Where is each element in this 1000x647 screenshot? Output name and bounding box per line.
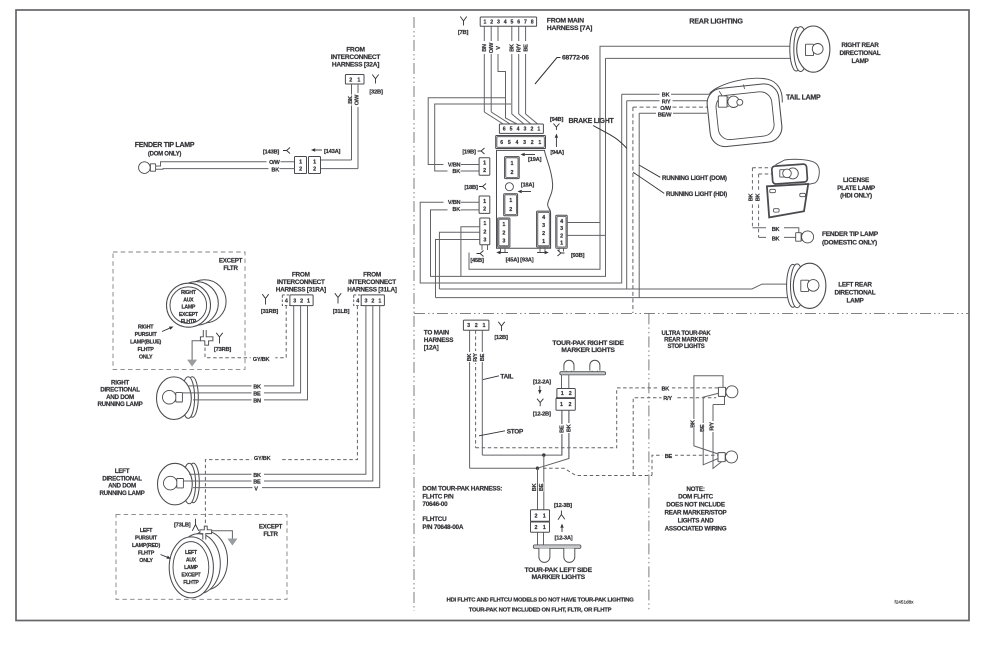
svg-text:(DOM ONLY): (DOM ONLY) [148,152,182,158]
svg-text:ONLY: ONLY [139,558,153,564]
svg-text:3: 3 [502,239,505,245]
svg-text:2: 2 [542,231,545,237]
svg-text:BE: BE [560,425,566,433]
svg-text:V: V [496,46,502,50]
svg-text:LICENSE: LICENSE [843,177,870,184]
svg-text:[12-2A]: [12-2A] [533,379,551,385]
svg-text:TOUR-PAK RIGHT SIDE: TOUR-PAK RIGHT SIDE [552,340,624,347]
svg-text:LEFT REAR: LEFT REAR [838,282,872,289]
svg-text:4: 4 [356,299,359,305]
svg-text:3: 3 [497,20,500,26]
svg-text:GY/BK: GY/BK [254,456,271,462]
svg-text:LEFT: LEFT [185,550,198,556]
svg-text:PLATE LAMP: PLATE LAMP [837,185,876,192]
svg-text:[94A]: [94A] [550,150,564,156]
svg-text:RIGHT: RIGHT [181,290,197,296]
svg-text:2: 2 [371,298,374,304]
svg-text:DOM FLHTC: DOM FLHTC [678,494,714,501]
svg-text:4: 4 [515,140,518,146]
svg-text:INTERCONNECT: INTERCONNECT [331,54,381,61]
svg-text:1: 1 [502,222,505,228]
svg-text:ULTRA TOUR-PAK: ULTRA TOUR-PAK [662,331,712,337]
svg-text:R/Y: R/Y [517,43,523,52]
svg-text:TOUR-PAK LEFT SIDE: TOUR-PAK LEFT SIDE [525,567,593,574]
svg-text:1: 1 [543,514,546,520]
svg-text:[94B]: [94B] [550,117,564,123]
svg-text:BE: BE [700,424,706,432]
svg-text:BK: BK [755,194,761,202]
svg-text:FENDER TIP LAMP: FENDER TIP LAMP [822,231,879,238]
svg-text:2: 2 [534,525,537,531]
svg-text:STOP LIGHTS: STOP LIGHTS [667,344,704,350]
svg-text:[12-3A]: [12-3A] [555,536,573,542]
svg-text:P/N 70648-00A: P/N 70648-00A [422,524,463,531]
svg-text:FLHTC P/N: FLHTC P/N [422,493,454,500]
svg-text:RUNNING LAMP: RUNNING LAMP [97,401,142,408]
svg-text:EXCEPT: EXCEPT [181,573,201,579]
svg-text:MARKER LIGHTS: MARKER LIGHTS [561,347,615,354]
svg-text:LAMP(RED): LAMP(RED) [132,543,160,549]
svg-text:[93B]: [93B] [571,253,585,259]
svg-text:FROM: FROM [363,271,381,278]
svg-text:2: 2 [560,233,563,239]
svg-text:1: 1 [560,402,563,408]
svg-text:2: 2 [569,402,572,408]
svg-text:TO MAIN: TO MAIN [424,329,450,336]
svg-text:R/Y: R/Y [473,353,479,362]
svg-text:HDI FLHTC AND FLHTCU MODELS DO: HDI FLHTC AND FLHTCU MODELS DO NOT HAVE … [446,597,634,603]
svg-text:6: 6 [517,20,520,26]
svg-text:1: 1 [542,239,545,245]
svg-text:HARNESS [31RA]: HARNESS [31RA] [276,286,326,293]
svg-text:R/Y: R/Y [710,422,716,431]
svg-text:[45B]: [45B] [470,258,484,264]
svg-text:3: 3 [293,298,296,304]
svg-text:BK: BK [510,44,516,52]
svg-text:1: 1 [482,323,485,329]
svg-text:INTERCONNECT: INTERCONNECT [348,279,396,286]
svg-text:DOES NOT INCLUDE: DOES NOT INCLUDE [666,502,725,509]
svg-text:PURSUIT: PURSUIT [135,332,158,338]
svg-text:1: 1 [483,20,486,26]
svg-text:BE: BE [524,44,530,52]
svg-text:AND DOM: AND DOM [108,483,136,490]
svg-text:REAR MARKER/: REAR MARKER/ [664,337,708,343]
svg-text:3: 3 [524,127,527,133]
svg-text:FLTR: FLTR [223,265,238,272]
svg-text:INTERCONNECT: INTERCONNECT [277,279,325,286]
svg-text:V: V [254,486,258,492]
svg-text:DIRECTIONAL: DIRECTIONAL [840,50,881,57]
svg-text:3: 3 [467,323,470,329]
svg-text:BN: BN [253,398,261,404]
svg-text:2: 2 [511,170,514,176]
svg-text:BE: BE [480,353,486,361]
svg-text:4: 4 [285,299,288,305]
svg-text:8: 8 [531,20,534,26]
svg-text:FLHTCU: FLHTCU [422,516,447,523]
svg-text:2: 2 [509,207,512,213]
svg-text:BK: BK [691,420,697,428]
svg-text:1: 1 [299,159,302,165]
svg-text:R/Y: R/Y [663,396,672,402]
svg-text:2: 2 [300,298,303,304]
svg-text:4: 4 [542,215,545,221]
svg-text:BK: BK [271,167,279,173]
svg-text:1: 1 [538,140,541,146]
svg-text:(HDI ONLY): (HDI ONLY) [840,193,872,200]
svg-text:EXCEPT: EXCEPT [179,312,199,318]
svg-text:1: 1 [509,198,512,204]
svg-text:STOP: STOP [507,428,524,435]
svg-text:6: 6 [503,127,506,133]
svg-text:ONLY: ONLY [139,355,153,361]
svg-text:1: 1 [543,525,546,531]
svg-text:TAIL: TAIL [500,373,513,380]
svg-text:TOUR-PAK NOT INCLUDED ON FLHT,: TOUR-PAK NOT INCLUDED ON FLHT, FLTR, OR … [469,607,612,613]
svg-text:2: 2 [534,514,537,520]
svg-text:PURSUIT: PURSUIT [135,535,158,541]
svg-text:1: 1 [537,127,540,133]
svg-text:GY/BK: GY/BK [253,357,270,363]
svg-text:NOTE:: NOTE: [686,486,704,493]
svg-text:AUX: AUX [186,557,197,563]
svg-text:(DOMESTIC ONLY): (DOMESTIC ONLY) [822,239,877,246]
svg-text:DOM TOUR-PAK HARNESS:: DOM TOUR-PAK HARNESS: [422,485,502,492]
svg-text:RUNNING LAMP: RUNNING LAMP [99,490,144,497]
svg-text:LAMP: LAMP [182,305,196,311]
svg-text:[73LB]: [73LB] [174,522,191,528]
svg-text:1: 1 [511,161,514,167]
svg-text:[73RB]: [73RB] [214,347,232,353]
svg-text:FROM: FROM [346,47,365,54]
svg-text:BK: BK [772,236,780,242]
svg-text:HARNESS [32A]: HARNESS [32A] [332,62,379,69]
svg-text:[12A]: [12A] [424,344,439,351]
svg-text:DIRECTIONAL: DIRECTIONAL [102,475,142,482]
svg-text:2: 2 [349,77,352,83]
svg-text:4: 4 [560,219,563,225]
svg-text:LAMP: LAMP [184,565,198,571]
svg-text:BK: BK [662,386,670,392]
svg-text:[143A]: [143A] [324,149,341,155]
svg-text:5: 5 [508,140,511,146]
svg-text:2: 2 [313,167,316,173]
svg-text:REAR MARKER/STOP: REAR MARKER/STOP [664,510,726,517]
svg-text:68772-06: 68772-06 [562,55,589,62]
svg-text:4: 4 [504,20,507,26]
svg-text:[45A] [93A]: [45A] [93A] [506,258,534,264]
svg-text:5: 5 [510,127,513,133]
svg-text:5: 5 [510,20,513,26]
svg-text:2: 2 [530,127,533,133]
svg-text:BK: BK [452,207,460,213]
svg-text:AUX: AUX [183,297,194,303]
svg-text:[18A]: [18A] [521,183,535,189]
svg-text:BN: BN [482,44,488,52]
svg-text:FLHTP: FLHTP [138,550,155,556]
svg-text:[31RB]: [31RB] [261,309,279,315]
svg-text:BRAKE LIGHT: BRAKE LIGHT [568,118,614,125]
svg-text:f2451d8x: f2451d8x [895,600,915,605]
svg-text:DIRECTIONAL: DIRECTIONAL [100,387,140,394]
svg-text:[12-3B]: [12-3B] [554,503,572,509]
svg-text:LEFT: LEFT [140,528,153,534]
svg-text:[18B]: [18B] [464,185,478,191]
svg-text:[32B]: [32B] [369,90,383,96]
svg-text:EXCEPT: EXCEPT [219,258,243,265]
svg-text:BK: BK [772,227,780,233]
svg-text:[19B]: [19B] [462,150,476,156]
svg-text:[143B]: [143B] [263,150,280,156]
svg-text:3: 3 [364,298,367,304]
svg-text:2: 2 [490,20,493,26]
svg-text:TAIL LAMP: TAIL LAMP [786,95,821,102]
svg-text:BE/W: BE/W [658,112,673,118]
svg-text:EXCEPT: EXCEPT [259,524,283,531]
svg-text:BK: BK [532,483,538,491]
svg-text:O/W: O/W [489,42,495,53]
svg-text:FLTR: FLTR [263,531,278,538]
svg-text:O/W: O/W [355,94,361,105]
svg-text:1: 1 [560,240,563,246]
svg-text:LAMP: LAMP [851,58,869,65]
svg-text:RIGHT: RIGHT [138,325,154,331]
svg-text:1: 1 [483,199,486,205]
svg-text:[12-2B]: [12-2B] [533,412,551,418]
svg-text:LAMP: LAMP [846,298,864,305]
svg-text:2: 2 [531,140,534,146]
svg-text:BK: BK [749,194,755,202]
svg-text:2: 2 [483,206,486,212]
svg-text:RIGHT: RIGHT [111,379,129,386]
svg-text:HARNESS [7A]: HARNESS [7A] [547,25,592,32]
svg-text:BE: BE [665,454,673,460]
svg-text:V/BN: V/BN [448,162,461,168]
svg-text:AND DOM: AND DOM [106,394,134,401]
svg-text:FLHTP: FLHTP [181,319,197,325]
svg-text:1: 1 [313,159,316,165]
svg-text:DIRECTIONAL: DIRECTIONAL [835,290,876,297]
svg-text:[12B]: [12B] [494,335,508,341]
svg-text:3: 3 [483,237,486,243]
svg-text:[7B]: [7B] [458,30,469,36]
svg-text:1: 1 [307,298,310,304]
svg-text:2: 2 [299,167,302,173]
svg-text:6: 6 [500,140,503,146]
svg-text:HARNESS: HARNESS [424,337,454,344]
svg-text:ASSOCIATED WIRING: ASSOCIATED WIRING [665,525,727,532]
svg-text:LIGHTS AND: LIGHTS AND [678,517,714,524]
svg-text:FLHTP: FLHTP [138,347,155,353]
svg-text:RUNNING LIGHT (HDI): RUNNING LIGHT (HDI) [666,191,727,198]
svg-text:2: 2 [483,229,486,235]
svg-text:1: 1 [357,77,360,83]
svg-text:BK: BK [567,424,573,432]
svg-text:2: 2 [483,168,486,174]
svg-text:BK: BK [348,96,354,104]
svg-text:7: 7 [524,20,527,26]
svg-text:FROM: FROM [292,271,310,278]
svg-text:V/BN: V/BN [448,200,461,206]
svg-text:RIGHT REAR: RIGHT REAR [841,42,879,49]
svg-text:1: 1 [483,221,486,227]
svg-text:BE: BE [539,483,545,491]
svg-text:1: 1 [378,298,381,304]
svg-text:70646-00: 70646-00 [422,501,448,508]
svg-text:MARKER LIGHTS: MARKER LIGHTS [532,574,586,581]
svg-text:HARNESS [31LA]: HARNESS [31LA] [347,286,397,293]
svg-text:LAMP(BLUE): LAMP(BLUE) [130,340,161,346]
svg-text:3: 3 [523,140,526,146]
svg-text:FROM MAIN: FROM MAIN [547,17,584,24]
svg-text:1: 1 [561,391,564,397]
svg-text:FENDER TIP LAMP: FENDER TIP LAMP [135,142,195,149]
svg-text:LEFT: LEFT [115,468,130,475]
svg-text:1: 1 [483,161,486,167]
svg-text:2: 2 [569,391,572,397]
svg-text:[19A]: [19A] [528,157,542,163]
svg-text:FLHTP: FLHTP [183,580,199,586]
svg-text:2: 2 [475,323,478,329]
svg-text:REAR LIGHTING: REAR LIGHTING [689,17,743,26]
svg-text:2: 2 [502,230,505,236]
svg-text:3: 3 [542,223,545,229]
svg-text:[31LB]: [31LB] [333,309,350,315]
svg-text:3: 3 [560,226,563,232]
svg-text:BK: BK [452,169,460,175]
svg-text:4: 4 [517,127,520,133]
svg-text:RUNNING LIGHT (DOM): RUNNING LIGHT (DOM) [662,175,727,182]
